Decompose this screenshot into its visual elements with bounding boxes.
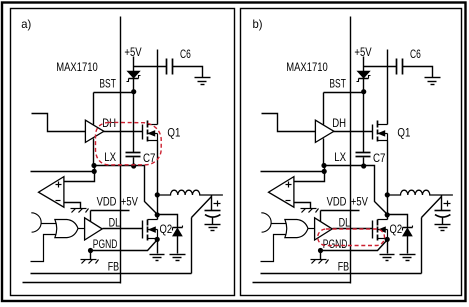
panel b: wire arc to OR gate: [272, 223, 287, 225]
panel b: wire input stub to DH driver: [262, 114, 316, 132]
panel a: ground for Q2: [150, 254, 165, 256]
svg-text:+5V: +5V: [351, 195, 368, 209]
panel b: comparator - sign: [286, 200, 291, 202]
panel a: comparator: [39, 177, 64, 208]
panel a: node Q2 source: [155, 237, 160, 242]
panel b: wire +5V rail left of C6: [364, 66, 397, 68]
panel a: wire arc to OR gate: [42, 223, 57, 225]
panel b: ground for output cap: [435, 224, 451, 226]
panel b: buffer DH driver: [315, 120, 334, 142]
panel a: capacitor C7: [126, 152, 141, 154]
panel b: capacitor C6: [396, 59, 398, 75]
svg-text:a): a): [21, 17, 31, 31]
panel b: node LX-inductor junction: [385, 192, 390, 197]
panel a: ground for PGND: [81, 259, 97, 261]
panel b: node LX dot A: [321, 163, 326, 168]
panel b: wire feedback diagonal: [422, 197, 442, 218]
panel b: wire OR lower input: [261, 235, 287, 262]
svg-text:Q1: Q1: [167, 125, 180, 139]
svg-text:Q1: Q1: [397, 125, 410, 139]
panel a: transistor Q1: [142, 125, 144, 140]
svg-text:PGND: PGND: [93, 237, 118, 251]
svg-text:BST: BST: [99, 77, 116, 91]
panel b: wire OR output to DL driver: [309, 228, 315, 230]
panel b: IC U1 MAX1710 box bottom edge: [253, 282, 351, 284]
panel a: ground for C6: [195, 77, 211, 79]
panel a: output + sign: [214, 203, 221, 205]
panel a: wire VDD rail: [91, 210, 130, 212]
panel a: buffer DL driver: [85, 218, 103, 240]
panel a: wire C7 bottom to LX: [133, 158, 135, 167]
panel a: wire diode cathode to C7: [133, 79, 135, 153]
panel a: wire OR lower input: [31, 235, 57, 262]
panel a: OR gate: [55, 220, 78, 238]
panel b: inductor L1: [387, 190, 453, 195]
panel a: wire FB: [31, 273, 192, 275]
panel a: wire OR output to DL driver: [79, 228, 85, 230]
panel b: diode D2 freewheel: [403, 227, 413, 229]
panel b: node PGND: [318, 248, 323, 253]
svg-text:MAX1710: MAX1710: [56, 60, 98, 74]
panel b: wire +5V lead: [363, 57, 365, 72]
panel b: ground for C6: [425, 77, 441, 79]
panel b: output + sign: [444, 203, 451, 205]
panel a: wire output cap lead: [211, 195, 213, 211]
panel a: node BST junction: [131, 89, 136, 94]
panel b: wire VDD rail: [321, 210, 360, 212]
panel a: wire DL to Q2 gate: [103, 228, 143, 230]
panel b: wire PGND to Q2 source: [321, 240, 388, 251]
panel a: diode D2 freewheel: [173, 227, 183, 229]
panel a: capacitor C8 output: [205, 210, 221, 212]
panel a: wire PGND to Q2 source: [91, 240, 158, 251]
panel a: wire Q2 source to ground: [157, 240, 159, 254]
panel b: wire BST to DH driver supply: [323, 93, 325, 125]
panel a: buffer DH driver: [85, 120, 104, 142]
panel b: wire Q1 drain from top: [387, 50, 389, 125]
panel a: capacitor C6: [166, 59, 168, 75]
panel b: wire FB: [261, 273, 422, 275]
panel b: wire Q2 source to ground: [387, 240, 389, 254]
svg-text:PGND: PGND: [323, 237, 348, 251]
panel a: node Q2 drain: [155, 212, 160, 217]
panel a: wire Q2 drain to node: [157, 215, 159, 220]
panel b: node Q2 drain: [385, 212, 390, 217]
panel b: capacitor C8 output: [435, 210, 451, 212]
panel a: node LX-inductor junction: [155, 192, 160, 197]
svg-text:VDD: VDD: [327, 195, 347, 209]
panel b: wire C7 bottom to LX: [363, 158, 365, 167]
svg-text:Q2: Q2: [160, 222, 173, 236]
panel b: wire node to diode D2: [388, 215, 408, 228]
panel a: wire +5V rail left of C6: [134, 66, 167, 68]
panel a: node LX dot B: [92, 169, 97, 174]
panel b: wire stub into dot B: [261, 171, 325, 173]
panel a: wire Q1 source down to LX node: [157, 141, 159, 195]
panel b: diode D1 boost: [358, 71, 370, 78]
panel a: wire DH driver return to LX: [93, 139, 95, 166]
panel a: transistor Q2: [142, 221, 144, 239]
svg-text:DH: DH: [332, 116, 346, 130]
panel b: wire DL to Q2 gate: [333, 228, 373, 230]
panel b: ground for comparator: [301, 208, 317, 210]
panel a: wire node to diode D2: [158, 215, 178, 228]
panel a: inductor L1: [157, 190, 223, 195]
panel b: wire DH to Q1 gate: [334, 131, 373, 133]
panel b: node BST junction: [361, 89, 366, 94]
panel b: OR gate: [285, 220, 308, 238]
panel a: node C7-LX junction: [131, 163, 136, 168]
panel b: comparator + sign: [286, 184, 292, 186]
panel b: wire BST pin to diode junction: [324, 92, 364, 94]
panel b box: [241, 9, 462, 296]
svg-text:DH: DH: [102, 116, 116, 130]
svg-text:VDD: VDD: [97, 195, 117, 209]
panel a: wire input stub to DH driver: [32, 114, 86, 132]
svg-text:b): b): [253, 17, 263, 31]
panel a: comparator - sign: [56, 200, 61, 202]
panel b: transistor Q2: [372, 221, 374, 239]
panel b: wire feedback vertical: [421, 218, 423, 274]
panel b: node C7-LX junction: [361, 163, 366, 168]
panel b: wire DH driver return to LX: [323, 139, 325, 166]
panel a: wire dot B to comparator +: [65, 166, 95, 182]
panel b: wire LX run: [325, 166, 388, 215]
panel b: wire VDD to DL driver supply: [320, 211, 322, 222]
svg-text:BST: BST: [329, 77, 346, 91]
panel a: wire +5V lead: [133, 57, 135, 72]
panel b: wire Q2 drain to node: [387, 215, 389, 220]
panel a: comparator + sign: [56, 184, 62, 186]
panel a: node LX dot A: [91, 163, 96, 168]
svg-text:C7: C7: [373, 151, 386, 165]
svg-text:LX: LX: [104, 150, 116, 164]
svg-text:FB: FB: [108, 259, 119, 273]
panel b: IC U1 MAX1710 box right edge: [350, 17, 352, 284]
panel a: wire BST to DH driver supply: [93, 93, 95, 125]
svg-text:C6: C6: [410, 47, 421, 61]
svg-text:C6: C6: [180, 47, 191, 61]
panel b: highlight ellipse around DL/PGND: [318, 229, 385, 246]
panel b: comparator: [269, 177, 294, 208]
panel a: wire Q1 drain from top: [157, 50, 159, 125]
panel a: highlight ellipse around DH/Q1/LX/C7: [96, 122, 162, 164]
panel a: IC U1 MAX1710 box right edge: [120, 17, 122, 284]
panel a: wire feedback vertical: [191, 218, 193, 274]
panel a: wire stub into dot B: [31, 171, 95, 173]
panel a: ground for comparator: [71, 208, 87, 210]
svg-text:LX: LX: [334, 150, 346, 164]
panel b: wire C6 to ground: [403, 67, 433, 78]
panel b: wire diode cathode to C7: [363, 79, 365, 153]
panel a: wire comparator - to ground: [64, 203, 81, 209]
panel b: ground for PGND: [311, 259, 327, 261]
panel a: wire LX run: [95, 166, 158, 215]
panel b: wire comparator - to ground: [294, 203, 311, 209]
panel b: gate input arc: [261, 213, 271, 232]
panel b: capacitor C7: [356, 152, 371, 154]
panel a: diode D1 boost: [128, 71, 140, 78]
panel a: IC U1 MAX1710 box bottom edge: [23, 282, 121, 284]
panel b: buffer DL driver: [315, 218, 333, 240]
panel b: node Q2 source: [385, 237, 390, 242]
panel b: ground for Q2: [380, 254, 395, 256]
panel a: wire VDD to DL driver supply: [90, 211, 92, 222]
svg-text:+5V: +5V: [121, 195, 138, 209]
panel b: wire PGND to ground: [320, 251, 322, 260]
svg-text:Q2: Q2: [390, 222, 403, 236]
panel b: ground for diode D2: [400, 254, 416, 256]
panel a: ground for diode D2: [170, 254, 186, 256]
panel a: wire PGND to ground: [90, 251, 92, 260]
panel a: wire BST pin to diode junction: [94, 92, 134, 94]
panel a: wire junction down: [157, 195, 159, 215]
panel b: wire Q1 source down to LX node: [387, 141, 389, 195]
svg-text:DL: DL: [109, 216, 121, 230]
panel a box: [11, 9, 235, 296]
panel a: ground for output cap: [205, 224, 221, 226]
panel b: wire output cap lead: [441, 195, 443, 211]
svg-text:MAX1710: MAX1710: [286, 60, 328, 74]
panel a: node PGND: [88, 248, 93, 253]
panel a: wire feedback diagonal: [192, 197, 212, 218]
panel a: wire C6 to ground: [173, 67, 203, 78]
panel a: wire DH to Q1 gate: [104, 131, 143, 133]
panel b: wire dot B to comparator +: [295, 166, 325, 182]
panel b: wire junction down: [387, 195, 389, 215]
panel b: transistor Q1: [372, 125, 374, 140]
panel a: gate input arc: [31, 213, 41, 232]
panel b: node LX dot B: [322, 169, 327, 174]
svg-text:FB: FB: [338, 259, 349, 273]
svg-text:DL: DL: [339, 216, 351, 230]
